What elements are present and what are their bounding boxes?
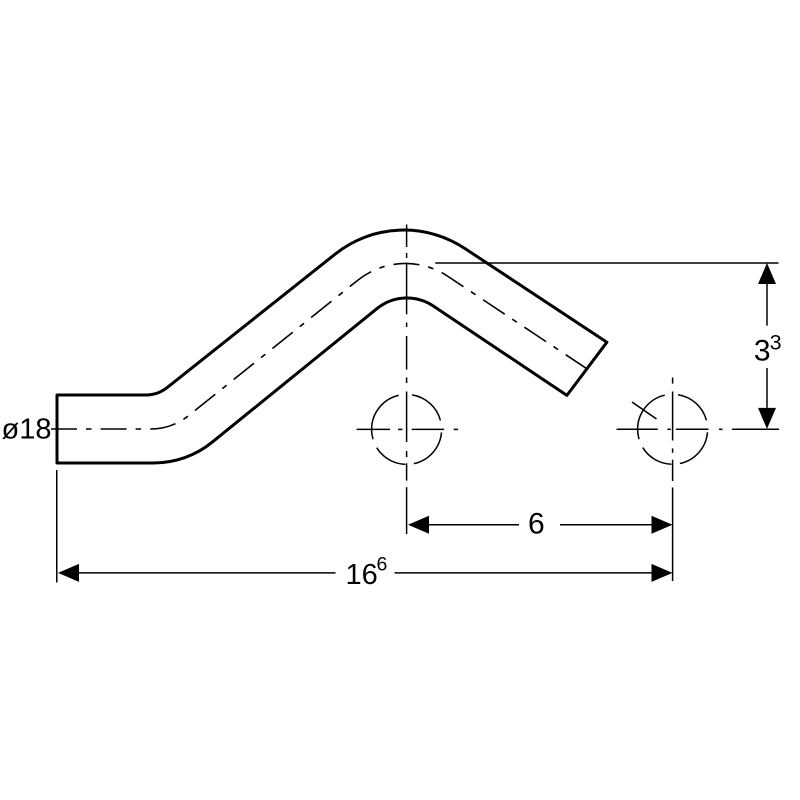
svg-text:6: 6 <box>377 554 388 576</box>
svg-text:16: 16 <box>346 559 378 591</box>
svg-text:6: 6 <box>528 508 545 541</box>
svg-text:ø18: ø18 <box>2 414 52 446</box>
svg-text:3: 3 <box>754 335 771 368</box>
svg-text:3: 3 <box>770 330 782 354</box>
